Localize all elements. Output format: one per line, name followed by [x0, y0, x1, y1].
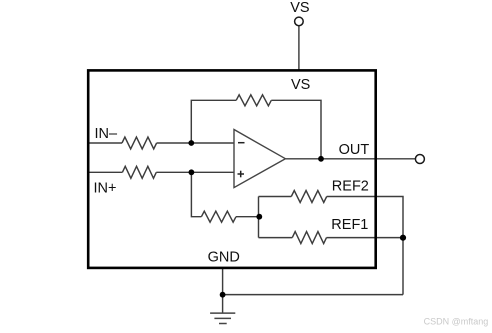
ground symbol — [210, 313, 235, 323]
svg-text:VS: VS — [290, 0, 309, 16]
VS terminal circle — [295, 17, 304, 26]
gain resistor — [201, 211, 236, 222]
feedback wire loop — [191, 100, 321, 159]
wire gain resistor to REF bracket node — [236, 216, 259, 218]
svg-text:OUT: OUT — [339, 142, 370, 158]
wire IN+ from box edge through resistor to op-amp noninverting input — [87, 171, 122, 173]
feedback resistor — [236, 95, 271, 106]
IC boundary box — [88, 70, 376, 268]
resistor R IN- — [122, 137, 157, 149]
svg-text:IN–: IN– — [95, 126, 119, 142]
wire from IN+ node down to gain resistor — [191, 172, 201, 216]
svg-text:VS: VS — [291, 77, 310, 93]
output wire to OUT terminal — [285, 158, 415, 160]
node REF1 junction — [400, 235, 406, 241]
node GND junction — [220, 292, 226, 298]
wire REF2 branch — [259, 197, 404, 295]
resistor R REF2 — [291, 191, 326, 203]
node IN- junction — [188, 140, 194, 146]
wire VS terminal to box top — [298, 26, 300, 71]
svg-text:REF2: REF2 — [332, 178, 369, 194]
resistor R IN+ — [122, 166, 156, 178]
wire REF bracket vertical — [258, 197, 260, 238]
node gain resistor / REF bracket junction — [256, 214, 262, 220]
svg-text:CSDN @mftang: CSDN @mftang — [424, 317, 489, 327]
OUT terminal circle — [415, 155, 424, 164]
svg-text:IN+: IN+ — [94, 181, 117, 197]
svg-text:GND: GND — [208, 249, 240, 265]
wire REF1 branch — [259, 237, 404, 239]
op-amp A1 — [234, 130, 285, 188]
node IN+ junction — [189, 169, 195, 175]
wire IN- from box edge through resistor to op-amp inverting input — [87, 142, 122, 144]
svg-text:REF1: REF1 — [331, 217, 368, 233]
node OUT junction — [318, 156, 324, 162]
wire GND stub from box bottom to ground symbol — [222, 267, 224, 313]
resistor R REF1 — [292, 232, 326, 244]
wire bottom return to ground — [223, 294, 403, 296]
